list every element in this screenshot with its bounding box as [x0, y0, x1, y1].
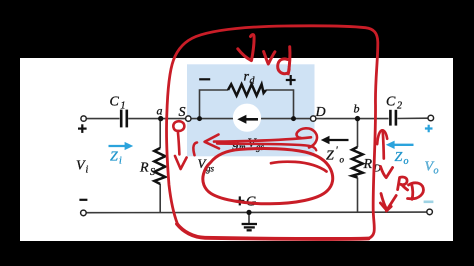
svg-text:C: C	[386, 95, 396, 110]
svg-text:a: a	[157, 104, 163, 118]
svg-text:1: 1	[121, 101, 126, 112]
svg-text:o: o	[404, 156, 409, 167]
svg-text:Z: Z	[326, 149, 334, 164]
svg-text:b: b	[354, 102, 360, 116]
svg-text:S: S	[179, 105, 186, 120]
svg-text:o: o	[340, 155, 345, 165]
svg-text:i: i	[119, 156, 122, 167]
svg-text:D: D	[315, 105, 326, 120]
svg-text:i: i	[86, 165, 89, 176]
svg-text:R: R	[363, 157, 373, 172]
svg-text:S: S	[150, 167, 155, 178]
svg-text:R: R	[139, 161, 149, 176]
svg-text:2: 2	[397, 101, 402, 112]
svg-text:Z: Z	[110, 150, 118, 165]
svg-text:o: o	[434, 166, 439, 177]
svg-text:C: C	[110, 95, 120, 110]
svg-text:V: V	[76, 159, 86, 174]
svg-text:Z: Z	[395, 150, 403, 165]
